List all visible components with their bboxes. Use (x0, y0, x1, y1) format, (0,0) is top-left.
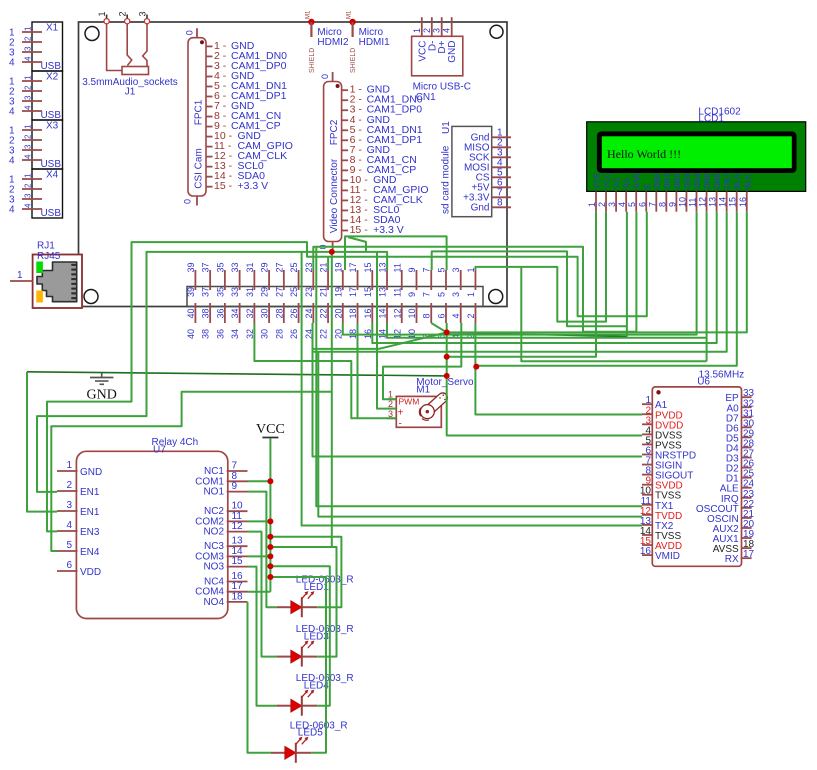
svg-text:25: 25 (289, 262, 299, 272)
LCD display LCD1 LCD1602 (587, 107, 806, 212)
svg-text:U6: U6 (697, 376, 710, 387)
svg-text:4: 4 (442, 28, 452, 33)
svg-text:5: 5 (436, 292, 446, 297)
svg-text:1: 1 (24, 124, 33, 129)
svg-text:NO3: NO3 (203, 562, 224, 573)
svg-text:2: 2 (118, 11, 128, 16)
svg-text:DB5: DB5 (703, 173, 712, 189)
svg-text:37: 37 (201, 262, 211, 272)
svg-text:18: 18 (232, 591, 244, 602)
FPC connector FPC1 CSI Cam (183, 28, 293, 205)
wire PVDD from pin2 (475, 323, 642, 415)
svg-text:26: 26 (289, 308, 299, 318)
wire LCD DB4 to pin20 (343, 212, 697, 335)
svg-text:DB3: DB3 (683, 173, 692, 189)
svg-text:DB0: DB0 (653, 173, 662, 189)
svg-text:Hello World !!!: Hello World !!! (607, 147, 681, 161)
svg-text:HDMI1: HDMI1 (359, 37, 391, 48)
svg-text:7: 7 (422, 292, 432, 297)
ground symbol GND (87, 373, 117, 403)
sd card module U1 (440, 121, 511, 217)
svg-text:0: 0 (320, 74, 330, 79)
svg-text:8: 8 (422, 313, 432, 318)
svg-text:M1: M1 (347, 10, 353, 19)
svg-text:0: 0 (183, 199, 193, 204)
svg-text:Micro USB-C: Micro USB-C (413, 82, 471, 93)
svg-text:USB: USB (40, 208, 61, 219)
svg-text:PWM: PWM (399, 397, 420, 407)
svg-text:18: 18 (348, 308, 358, 318)
svg-text:RX: RX (725, 554, 739, 565)
svg-text:34: 34 (230, 308, 240, 318)
wire COM4 wire (248, 591, 271, 593)
svg-text:4: 4 (9, 205, 15, 216)
svg-text:13: 13 (708, 197, 718, 207)
FPC connector FPC2 Video Connector (318, 72, 428, 251)
USB connector X1 (9, 22, 63, 72)
junction VCC branch junction 3 (267, 563, 273, 569)
svg-text:22: 22 (319, 329, 329, 339)
svg-text:EN3: EN3 (80, 527, 100, 538)
svg-text:10: 10 (407, 308, 417, 318)
svg-text:40: 40 (186, 329, 196, 339)
wire COM3 wire (248, 555, 271, 557)
wire VCC branch LED4 return (270, 566, 329, 705)
wire EN4 net (51, 392, 332, 551)
svg-text:31: 31 (245, 287, 255, 297)
svg-text:J1: J1 (125, 87, 136, 98)
wire LCD VSS to GND rail (447, 212, 596, 357)
svg-text:VO: VO (613, 177, 622, 189)
junction FPC2 shield junction (329, 249, 335, 255)
svg-text:10: 10 (677, 197, 687, 207)
svg-text:5: 5 (66, 540, 72, 551)
junction VCC branch junction 4 (267, 574, 273, 580)
svg-text:15: 15 (728, 197, 738, 207)
Raspberry Pi board outline (79, 22, 508, 307)
svg-text:16: 16 (738, 197, 748, 207)
svg-text:RS: RS (623, 178, 632, 189)
svg-text:1: 1 (466, 292, 476, 297)
svg-text:2: 2 (466, 313, 476, 318)
junction pin2 column junction (473, 364, 479, 370)
junction VCC branch junction 2 (267, 544, 273, 550)
svg-text:GND: GND (87, 388, 117, 403)
junction VCC COM1 junction (267, 478, 273, 484)
svg-text:1: 1 (24, 26, 33, 31)
svg-text:17: 17 (348, 262, 358, 272)
svg-text:1: 1 (24, 75, 33, 80)
svg-text:38: 38 (201, 308, 211, 318)
svg-text:4: 4 (66, 520, 72, 531)
Micro HDMI1 connector (347, 10, 391, 73)
svg-text:3: 3 (451, 267, 461, 272)
svg-text:13: 13 (378, 287, 388, 297)
svg-text:22: 22 (319, 308, 329, 318)
svg-text:36: 36 (215, 308, 225, 318)
svg-text:+3.3 V: +3.3 V (238, 180, 269, 192)
wire TVDD net (318, 352, 642, 517)
svg-text:3: 3 (24, 193, 33, 198)
wire NO3 to LED4 (248, 567, 277, 706)
wire LCD BLA to 5V (476, 212, 737, 366)
svg-text:16: 16 (363, 308, 373, 318)
junction VCC COM2 junction (267, 518, 273, 524)
svg-text:40: 40 (186, 308, 196, 318)
Micro USB-C connector CN1 (412, 17, 471, 103)
svg-text:2: 2 (24, 183, 33, 188)
svg-text:21: 21 (319, 262, 329, 272)
svg-text:28: 28 (274, 308, 284, 318)
svg-text:30: 30 (260, 329, 270, 339)
wire PWM from pin4 (383, 323, 461, 399)
svg-text:1: 1 (587, 202, 597, 207)
svg-text:4: 4 (9, 156, 15, 167)
USB connector X3 (9, 120, 63, 170)
svg-text:29: 29 (260, 287, 270, 297)
NFC chip U6 13.56MHz (640, 370, 755, 567)
mounting hole bottom-right (489, 290, 503, 304)
svg-text:1: 1 (97, 11, 107, 16)
junction GND rail junction A (444, 329, 450, 335)
svg-text:U7: U7 (153, 445, 166, 456)
svg-text:32: 32 (245, 329, 255, 339)
svg-text:39: 39 (186, 287, 196, 297)
svg-text:+: + (398, 408, 404, 419)
wire LCD RS riser (626, 212, 628, 337)
svg-text:-: - (399, 419, 402, 430)
svg-text:VDD: VDD (80, 567, 101, 578)
svg-text:CSI Cam: CSI Cam (194, 148, 205, 189)
svg-text:15 -: 15 - (350, 224, 371, 236)
audio socket pins 1-3 (97, 11, 149, 23)
svg-text:9: 9 (232, 481, 238, 492)
svg-text:VCC: VCC (256, 422, 285, 437)
wire TX1 net (316, 247, 642, 507)
wire NO2 to LED3 (248, 532, 277, 657)
wire GND rail pin6 column (447, 323, 642, 436)
svg-text:4: 4 (24, 105, 33, 110)
svg-text:3: 3 (24, 46, 33, 51)
wire VCC branch LED3 return (270, 547, 336, 657)
svg-text:NO2: NO2 (203, 527, 224, 538)
wire GND rail sloped branch (447, 332, 627, 336)
svg-text:DB6: DB6 (713, 173, 722, 189)
svg-text:BLK: BLK (743, 173, 752, 189)
wire GND net sloped (27, 372, 447, 376)
svg-text:33: 33 (230, 287, 240, 297)
svg-text:19: 19 (333, 287, 343, 297)
svg-text:5: 5 (436, 267, 446, 272)
svg-text:24: 24 (304, 308, 314, 318)
LED LED3 LED-0603_R (276, 624, 353, 667)
svg-text:2: 2 (422, 28, 432, 33)
wire VCC branch LED1 return (270, 537, 341, 607)
svg-text:12: 12 (232, 521, 244, 532)
svg-text:11: 11 (392, 288, 402, 297)
svg-text:31: 31 (245, 262, 255, 272)
svg-text:1: 1 (17, 270, 23, 281)
svg-text:VCC: VCC (603, 172, 612, 189)
svg-text:X3: X3 (46, 121, 59, 132)
svg-text:38: 38 (201, 329, 211, 339)
svg-text:X2: X2 (46, 72, 59, 83)
svg-text:19: 19 (333, 262, 343, 272)
svg-text:35: 35 (215, 262, 225, 272)
svg-text:4: 4 (9, 58, 15, 69)
wire servo plus (377, 252, 396, 409)
wire NRSTPD riser (313, 323, 643, 457)
svg-text:35: 35 (215, 287, 225, 297)
svg-text:15 -: 15 - (214, 180, 235, 192)
svg-text:SHIELD: SHIELD (350, 48, 357, 73)
wire NO4 to LED5 (248, 602, 271, 753)
svg-text:LED5: LED5 (298, 728, 323, 739)
svg-text:11: 11 (688, 198, 698, 207)
wire pin1 to LCD VCC (475, 212, 606, 322)
svg-text:15: 15 (363, 262, 373, 272)
svg-text:HDMI2: HDMI2 (317, 37, 349, 48)
svg-text:Video Connector: Video Connector (329, 158, 340, 233)
svg-text:VSS: VSS (593, 173, 602, 189)
svg-text:4: 4 (617, 202, 627, 207)
svg-text:5: 5 (627, 202, 637, 207)
svg-text:NO1: NO1 (203, 487, 224, 498)
svg-text:sd card module: sd card module (440, 145, 451, 214)
3.5mm audio socket symbol J1 (107, 24, 149, 75)
svg-text:3: 3 (24, 95, 33, 100)
wire pin8 diagonal (431, 323, 447, 332)
junction VCC COM3 junction (267, 553, 273, 559)
svg-text:FPC1: FPC1 (194, 99, 205, 125)
svg-text:6: 6 (436, 313, 446, 318)
svg-text:15: 15 (363, 287, 373, 297)
svg-text:RJ45: RJ45 (37, 251, 61, 262)
svg-text:25: 25 (289, 287, 299, 297)
svg-text:34: 34 (230, 329, 240, 339)
svg-text:4: 4 (24, 203, 33, 208)
svg-text:3: 3 (66, 500, 72, 511)
svg-text:4: 4 (9, 107, 15, 118)
svg-text:20: 20 (333, 308, 343, 318)
wire pin19-pin5 bridge (345, 236, 447, 270)
junction GND rail junction C (444, 373, 450, 379)
svg-text:+3.3 V: +3.3 V (373, 224, 404, 236)
svg-text:7: 7 (422, 267, 432, 272)
svg-text:3: 3 (432, 28, 442, 33)
svg-text:3: 3 (607, 202, 617, 207)
svg-text:36: 36 (215, 329, 225, 339)
wire pin23 to LCD RW (313, 212, 636, 332)
svg-text:X4: X4 (46, 170, 59, 181)
svg-text:12: 12 (698, 197, 708, 207)
wire EN1 pin3 net (27, 372, 57, 512)
wire pin7 to LCD RS (432, 251, 627, 326)
relay module U7 Relay 4Ch (57, 437, 248, 619)
svg-text:2: 2 (597, 202, 607, 207)
GPIO 40-pin header (186, 262, 483, 339)
svg-text:28: 28 (274, 329, 284, 339)
svg-text:8: 8 (657, 202, 667, 207)
svg-text:GND: GND (447, 41, 458, 63)
mounting hole top-left (85, 27, 99, 41)
LED LED1 LED-0603_R (276, 575, 353, 618)
svg-text:BLA: BLA (733, 173, 742, 189)
svg-text:1: 1 (412, 28, 422, 33)
mounting hole bottom-left (84, 290, 98, 304)
wire pin21 riser (327, 257, 329, 270)
svg-text:11: 11 (392, 263, 402, 272)
svg-text:EN1: EN1 (80, 507, 100, 518)
motor servo M1 (387, 377, 474, 430)
svg-text:39: 39 (186, 262, 196, 272)
svg-text:SHIELD: SHIELD (309, 48, 316, 73)
wire LCD DB7 line (313, 212, 727, 352)
svg-text:14: 14 (378, 308, 388, 318)
svg-text:R/W: R/W (633, 173, 642, 189)
svg-text:12: 12 (392, 308, 402, 318)
wire pin18 riser to servo minus (357, 323, 359, 418)
Micro HDMI2 connector (305, 10, 349, 73)
svg-text:17: 17 (348, 287, 358, 297)
svg-text:DB2: DB2 (673, 173, 682, 189)
svg-text:32: 32 (245, 308, 255, 318)
svg-text:23: 23 (304, 287, 314, 297)
svg-text:16: 16 (640, 546, 652, 557)
svg-text:26: 26 (289, 329, 299, 339)
svg-text:DB4: DB4 (693, 173, 702, 189)
svg-text:CN1: CN1 (416, 92, 436, 103)
wire COM2 wire (248, 520, 271, 522)
svg-text:EN1: EN1 (80, 487, 100, 498)
svg-text:FPC2: FPC2 (329, 119, 340, 145)
svg-text:9: 9 (407, 292, 417, 297)
svg-text:NO4: NO4 (203, 597, 224, 608)
wire EN1 pin2 to pin13 via FPC2 shield (37, 252, 387, 492)
wire servo minus (254, 323, 396, 418)
svg-text:21: 21 (319, 287, 329, 297)
svg-text:15: 15 (232, 556, 244, 567)
wire TX2 net (302, 252, 642, 526)
svg-text:37: 37 (201, 287, 211, 297)
svg-text:33: 33 (230, 262, 240, 272)
svg-text:9: 9 (667, 202, 677, 207)
wire LCD DB6 to pin16 (372, 212, 716, 343)
LED LED5 LED-0603_R (270, 720, 347, 763)
power symbol VCC (256, 422, 285, 438)
svg-text:3: 3 (138, 11, 148, 16)
svg-text:1: 1 (66, 460, 72, 471)
svg-text:X1: X1 (46, 23, 59, 34)
wire VCC branch LED5 return (270, 577, 326, 753)
svg-text:30: 30 (260, 308, 270, 318)
wire bridge diagonal (348, 237, 366, 252)
svg-text:DB7: DB7 (723, 173, 732, 189)
svg-text:27: 27 (274, 287, 284, 297)
wire FPC2 shield riser (331, 252, 333, 547)
svg-text:3: 3 (451, 292, 461, 297)
svg-text:M1: M1 (305, 10, 311, 19)
svg-text:LCD1: LCD1 (698, 114, 724, 125)
svg-text:9: 9 (407, 267, 417, 272)
svg-text:4: 4 (24, 154, 33, 159)
svg-text:2: 2 (24, 85, 33, 90)
junction VCC branch junction 1 (267, 534, 273, 540)
wire NRSTPD net (313, 332, 447, 349)
svg-text:Gnd: Gnd (471, 202, 490, 213)
svg-text:7: 7 (647, 202, 657, 207)
LED LED4 LED-0603_R (276, 673, 353, 716)
wire pin1 net riser (521, 267, 706, 361)
wire NO1 to LED1 (248, 492, 277, 608)
svg-text:4: 4 (24, 56, 33, 61)
svg-text:2: 2 (24, 36, 33, 41)
svg-text:8: 8 (497, 197, 503, 208)
svg-text:14: 14 (718, 197, 728, 207)
svg-text:DB1: DB1 (663, 173, 672, 189)
svg-text:0: 0 (185, 30, 195, 35)
svg-text:27: 27 (274, 262, 284, 272)
svg-text:1: 1 (24, 173, 33, 178)
svg-text:VMID: VMID (655, 551, 680, 562)
svg-text:6: 6 (66, 560, 72, 571)
USB connector X2 (9, 71, 63, 121)
svg-text:2: 2 (66, 480, 72, 491)
svg-text:GND: GND (80, 467, 102, 478)
wire COM1 wire (248, 480, 271, 482)
mounting hole top-right (490, 25, 503, 38)
svg-text:4: 4 (451, 313, 461, 318)
wire LCD DB5 to pin14 (387, 212, 707, 338)
RJ45 connector RJ1 (10, 241, 82, 309)
svg-text:17: 17 (743, 549, 755, 560)
wire VCC rail (269, 439, 271, 592)
svg-text:29: 29 (260, 262, 270, 272)
svg-text:U1: U1 (441, 121, 452, 134)
USB connector X4 (9, 169, 63, 219)
wire LCD DB5 column lower stub (706, 338, 708, 362)
junction GND rail junction B (444, 354, 450, 360)
svg-text:2: 2 (24, 134, 33, 139)
wire EN3 to LCD E (47, 212, 647, 532)
svg-text:13: 13 (378, 262, 388, 272)
svg-text:E: E (643, 184, 652, 189)
wire GND to LCD BLK (447, 212, 747, 333)
svg-text:EN4: EN4 (80, 547, 100, 558)
svg-text:3: 3 (24, 144, 33, 149)
svg-text:6: 6 (637, 202, 647, 207)
svg-text:M1: M1 (416, 384, 430, 395)
